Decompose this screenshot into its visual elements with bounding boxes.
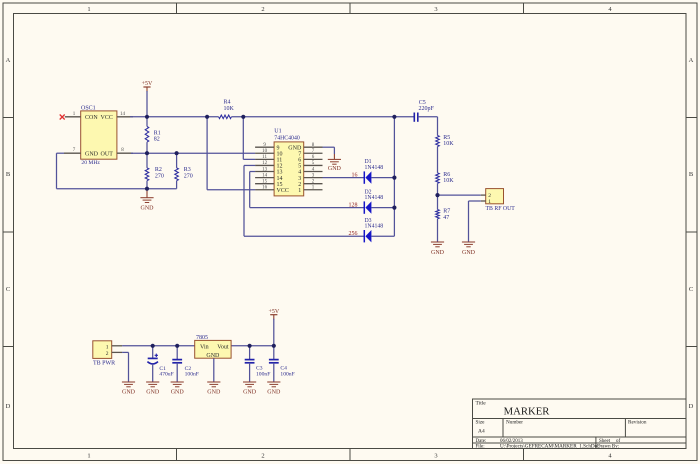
- svg-text:R2: R2: [155, 167, 162, 173]
- svg-text:R4: R4: [224, 100, 231, 106]
- svg-text:12: 12: [262, 161, 268, 166]
- svg-text:OUT: OUT: [101, 151, 114, 157]
- svg-text:GND: GND: [431, 250, 445, 256]
- svg-text:U:\Projects\GEFRECAM\MARKER_1.: U:\Projects\GEFRECAM\MARKER_1.SchDoc: [500, 444, 600, 450]
- svg-text:Vin: Vin: [200, 344, 209, 350]
- svg-text:Date:: Date:: [476, 439, 487, 444]
- svg-text:2: 2: [261, 453, 264, 460]
- svg-text:R3: R3: [184, 167, 191, 173]
- svg-text:74HC4040: 74HC4040: [274, 135, 300, 141]
- svg-text:Sheet: Sheet: [599, 439, 611, 444]
- svg-text:100nF: 100nF: [280, 371, 294, 377]
- svg-text:Number: Number: [506, 420, 523, 426]
- svg-text:GND: GND: [146, 390, 160, 396]
- svg-text:10K: 10K: [224, 106, 235, 112]
- svg-text:GND: GND: [206, 353, 220, 359]
- svg-text:Title: Title: [476, 401, 487, 407]
- svg-text:D: D: [689, 403, 694, 410]
- svg-text:TB RF OUT: TB RF OUT: [486, 206, 516, 212]
- svg-text:1: 1: [87, 453, 90, 460]
- svg-text:GND: GND: [462, 250, 476, 256]
- svg-text:C: C: [689, 286, 693, 293]
- svg-text:10: 10: [262, 149, 268, 154]
- svg-text:VCC: VCC: [101, 115, 113, 121]
- svg-text:100nF: 100nF: [185, 372, 199, 378]
- svg-text:1N4148: 1N4148: [365, 165, 384, 171]
- svg-text:1: 1: [488, 199, 491, 205]
- svg-text:GND: GND: [122, 390, 136, 396]
- svg-text:Revision: Revision: [628, 420, 647, 426]
- svg-text:B: B: [6, 171, 11, 178]
- svg-text:7805: 7805: [196, 335, 208, 341]
- svg-text:10K: 10K: [443, 178, 454, 184]
- svg-text:Vout: Vout: [217, 344, 229, 350]
- svg-text:VCC: VCC: [277, 188, 289, 194]
- svg-text:of: of: [616, 439, 621, 444]
- svg-text:C5: C5: [419, 100, 426, 106]
- svg-text:R6: R6: [443, 172, 450, 178]
- svg-text:1N4148: 1N4148: [365, 224, 384, 230]
- svg-text:R7: R7: [443, 209, 450, 215]
- svg-text:16: 16: [352, 173, 358, 179]
- svg-text:47: 47: [443, 215, 449, 221]
- svg-text:2: 2: [261, 6, 264, 13]
- svg-text:2: 2: [106, 351, 109, 357]
- svg-text:Drawn By:: Drawn By:: [597, 445, 619, 450]
- svg-text:U1: U1: [274, 129, 281, 135]
- svg-text:Size: Size: [476, 420, 486, 426]
- svg-text:A: A: [689, 57, 694, 64]
- svg-text:1N4148: 1N4148: [365, 195, 384, 201]
- svg-text:3: 3: [434, 6, 437, 13]
- svg-text:256: 256: [349, 231, 358, 237]
- svg-text:10K: 10K: [443, 141, 454, 147]
- svg-text:A: A: [6, 57, 11, 64]
- svg-text:C: C: [6, 286, 10, 293]
- svg-text:TB PWR: TB PWR: [93, 360, 115, 366]
- svg-text:270: 270: [184, 173, 193, 179]
- svg-text:GND: GND: [243, 390, 257, 396]
- svg-text:+5V: +5V: [142, 81, 153, 87]
- svg-text:470uF: 470uF: [159, 372, 173, 378]
- svg-text:GND: GND: [85, 151, 99, 157]
- svg-text:3: 3: [434, 453, 437, 460]
- svg-text:14: 14: [262, 173, 268, 178]
- svg-text:CON: CON: [85, 115, 98, 121]
- svg-text:100nF: 100nF: [256, 371, 270, 377]
- svg-text:D: D: [6, 403, 11, 410]
- svg-text:GND: GND: [207, 390, 221, 396]
- svg-text:1: 1: [106, 344, 109, 350]
- svg-text:13: 13: [262, 167, 268, 172]
- svg-text:A4: A4: [478, 429, 485, 435]
- svg-text:GND: GND: [171, 390, 185, 396]
- svg-text:1: 1: [87, 6, 90, 13]
- svg-text:270: 270: [155, 173, 164, 179]
- svg-text:B: B: [689, 171, 694, 178]
- svg-text:11: 11: [262, 155, 267, 160]
- svg-text:GND: GND: [141, 205, 155, 211]
- svg-text:MARKER: MARKER: [504, 406, 551, 418]
- svg-text:15: 15: [262, 179, 268, 184]
- svg-text:16: 16: [262, 186, 268, 191]
- svg-text:+5V: +5V: [268, 309, 279, 315]
- svg-text:File:: File:: [476, 445, 485, 450]
- svg-text:220pF: 220pF: [419, 106, 435, 112]
- svg-text:GND: GND: [328, 166, 342, 172]
- svg-text:20 MHz: 20 MHz: [81, 160, 100, 166]
- svg-text:R1: R1: [154, 130, 161, 136]
- svg-text:82: 82: [154, 137, 160, 143]
- svg-text:GND: GND: [267, 390, 281, 396]
- svg-text:OSC1: OSC1: [81, 105, 96, 111]
- svg-text:1: 1: [298, 188, 301, 194]
- svg-text:128: 128: [349, 202, 358, 208]
- svg-text:R5: R5: [443, 135, 450, 141]
